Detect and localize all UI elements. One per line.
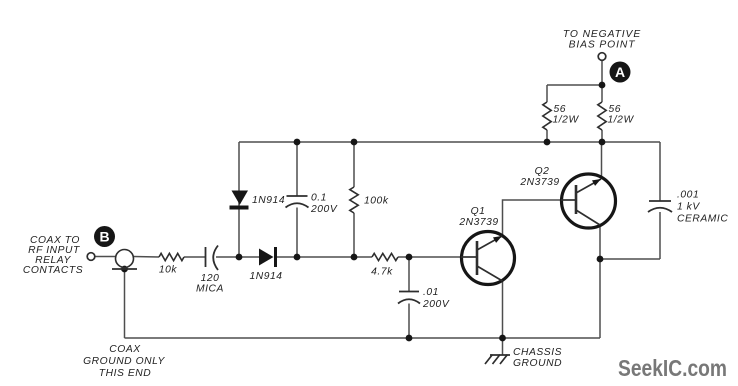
wire Q1 emitter to bottom rail <box>502 281 504 338</box>
resistor 10k <box>159 253 184 260</box>
svg-text:1N914: 1N914 <box>249 271 282 282</box>
svg-text:B: B <box>99 229 109 245</box>
svg-text:.001: .001 <box>677 190 699 201</box>
wire .01 cap bottom lead <box>408 304 410 339</box>
wire mica cap to diode D2 <box>216 256 259 258</box>
svg-text:4.7k: 4.7k <box>371 267 393 278</box>
svg-text:THIS END: THIS END <box>99 368 151 379</box>
svg-text:2N3739: 2N3739 <box>519 177 559 188</box>
chassis ground symbol <box>485 355 510 365</box>
wire diode D2 to 4.7k <box>277 256 372 258</box>
label COAX TO RF INPUT RELAY CONTACTS <box>23 235 83 276</box>
svg-text:.01: .01 <box>423 287 439 298</box>
svg-text:2N3739: 2N3739 <box>458 217 498 228</box>
svg-text:COAX: COAX <box>109 344 141 355</box>
svg-text:CERAMIC: CERAMIC <box>677 214 728 225</box>
svg-text:56: 56 <box>554 104 567 115</box>
node A <box>610 62 631 83</box>
svg-text:1/2W: 1/2W <box>608 115 635 126</box>
svg-text:120: 120 <box>201 273 220 284</box>
wire left 56 resistor top lead <box>546 85 548 102</box>
svg-text:TO NEGATIVE: TO NEGATIVE <box>563 29 641 40</box>
wire node to ceramic cap column <box>600 258 660 260</box>
junction top rail / 100k <box>351 139 358 146</box>
svg-text:Q1: Q1 <box>471 206 486 217</box>
svg-text:BIAS POINT: BIAS POINT <box>569 40 636 51</box>
resistor 100k <box>350 187 358 213</box>
svg-text:CHASSIS: CHASSIS <box>513 347 562 358</box>
wire Q2 emitter to top rail <box>601 142 603 177</box>
capacitor .001 1kV ceramic <box>648 201 672 212</box>
wire Q2 node down to bottom rail <box>599 259 601 338</box>
wire chassis ground stub <box>502 338 504 355</box>
terminal negative bias <box>598 53 606 61</box>
svg-text:200V: 200V <box>310 204 338 215</box>
svg-text:GROUND ONLY: GROUND ONLY <box>83 356 165 367</box>
wire bottom rail <box>125 337 601 339</box>
resistor 56 1/2W right <box>598 102 606 130</box>
junction mid wire / diode branch <box>236 254 243 261</box>
junction Q2 collector node <box>597 256 604 263</box>
svg-text:GROUND: GROUND <box>513 358 562 369</box>
svg-text:200V: 200V <box>422 299 450 310</box>
svg-text:Q2: Q2 <box>535 166 550 177</box>
junction node A tee <box>599 82 606 89</box>
transistor Q1 2N3739 <box>461 232 515 285</box>
svg-text:100k: 100k <box>364 196 389 207</box>
junction mid wire / .01 cap <box>406 254 413 261</box>
capacitor 0.1 200V <box>286 196 309 208</box>
junction top rail / 56 left <box>544 139 551 146</box>
wire 10k to mica cap <box>184 256 205 258</box>
wire node A stub from terminal <box>601 60 603 85</box>
label COAX GROUND ONLY THIS END <box>83 344 165 379</box>
wire Q2 collector down to node <box>599 226 601 259</box>
coax connector shell <box>112 250 137 270</box>
wire ceramic cap top lead <box>659 142 661 201</box>
resistor 4.7k <box>372 253 398 260</box>
wire coax ground drop <box>124 269 126 338</box>
wire 100k bottom lead <box>353 213 355 257</box>
wire 4.7k to Q1 base <box>398 256 461 258</box>
svg-text:A: A <box>615 64 625 80</box>
svg-text:56: 56 <box>609 104 622 115</box>
svg-text:MICA: MICA <box>196 284 224 295</box>
wire top rail <box>239 141 660 143</box>
diode D2 1N914 horizontal <box>259 247 276 267</box>
wire diode D1 branch <box>238 142 240 257</box>
svg-text:0.1: 0.1 <box>311 193 327 204</box>
junction mid wire / 100k <box>351 254 358 261</box>
wire right 56 resistor bottom lead <box>601 130 603 142</box>
wire 100k top lead <box>353 142 355 187</box>
wire ceramic cap bottom lead <box>659 212 661 259</box>
capacitor .01 200V <box>398 292 420 304</box>
svg-text:SeekIC.com: SeekIC.com <box>618 355 727 381</box>
wire left 56 resistor bottom lead <box>546 130 548 142</box>
junction top rail / 56 right <box>599 139 606 146</box>
wire Q1 collector to Q2 base <box>503 200 562 236</box>
diode D1 1N914 vertical <box>230 191 249 208</box>
wire 0.1 cap bottom lead <box>296 208 298 258</box>
wire .01 cap top lead <box>408 257 410 291</box>
junction bottom rail / Q1 emitter <box>499 335 506 342</box>
wire bias tee horizontal <box>547 84 602 86</box>
svg-text:1 kV: 1 kV <box>677 202 700 213</box>
wire right 56 resistor top lead <box>601 85 603 102</box>
svg-text:1/2W: 1/2W <box>553 115 580 126</box>
svg-text:10k: 10k <box>159 265 178 276</box>
terminal coax input <box>87 253 95 261</box>
svg-text:1N914: 1N914 <box>252 195 285 206</box>
label TO NEGATIVE BIAS POINT <box>563 29 641 51</box>
junction mid wire / 0.1 cap <box>294 254 301 261</box>
wire 0.1 cap top lead <box>296 142 298 196</box>
svg-text:CONTACTS: CONTACTS <box>23 265 83 276</box>
capacitor 120 MICA <box>206 246 219 271</box>
junction bottom rail / .01 cap <box>406 335 413 342</box>
wire coax connector to 10k <box>134 256 160 259</box>
junction top rail / 0.1 cap <box>294 139 301 146</box>
wire input terminal to coax connector <box>95 256 117 258</box>
junction coax ground <box>121 266 128 273</box>
resistor 56 1/2W left <box>543 102 551 130</box>
node B <box>94 226 115 247</box>
transistor Q2 2N3739 <box>561 174 616 228</box>
